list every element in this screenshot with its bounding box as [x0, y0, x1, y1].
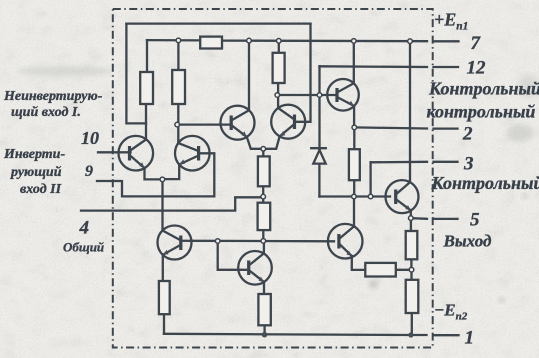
resistor R11 (T8 emitter) [159, 281, 170, 314]
svg-text:Неинвертирую-: Неинвертирую- [3, 89, 103, 104]
svg-text:3: 3 [463, 154, 474, 175]
node on rail at T6 collector [352, 39, 357, 44]
smudge: right margin blotches [507, 124, 533, 142]
wire: transistor T10 emitter to resistor R12 [263, 282, 265, 294]
transistor T10 (bottom center) [238, 251, 272, 285]
wire: transistor T9 emitter to resistor R9 [352, 256, 366, 270]
wire: transistor T7 collector from rail node down [409, 41, 411, 182]
wire: node to transistor T6 base [277, 94, 336, 96]
wire: rail corner down to resistor R1 top [146, 40, 148, 72]
smudge: bleed-through band top left [17, 66, 113, 76]
svg-text:контрольный: контрольный [427, 102, 536, 122]
wire: main +supply rail y=40, right part to pin 7 [222, 39, 459, 42]
node at R3 bottom / T4 collector [275, 93, 280, 98]
svg-text:щий вход I.: щий вход I. [11, 105, 81, 120]
node at diode riser on T6 base wire [317, 93, 322, 98]
node at R8/R9/R10 junction [409, 267, 414, 272]
wire: resistor R11 bottom to bottom rail corner [163, 314, 165, 334]
resistor R7 (second stage tail, lower) [258, 203, 271, 230]
wire: pin 5 output lead [411, 217, 458, 220]
wire: diode anode lead down to node wire [318, 164, 320, 197]
svg-text:Инверти-: Инверти- [3, 147, 65, 162]
wire: transistor T4 emitter to second stage tail node [263, 136, 279, 148]
resistor R2 [172, 70, 185, 104]
wire: leads of resistor R6 [262, 149, 264, 203]
wire: resistor R9 to node [396, 269, 412, 271]
wire: riser A from top rail down to T4 base [297, 24, 311, 122]
transistor T3 (second stage left) [221, 106, 255, 140]
wire: transistor T3 emitter to second stage tail node [247, 137, 263, 149]
resistor R4 (horizontal, top rail) [200, 37, 222, 49]
wire: pin 3 lead [371, 161, 458, 164]
wire: transistor T8 emitter to resistor R11 [162, 255, 164, 281]
wire: pin 2 lead from T6 emitter node [354, 127, 457, 128]
wire: main +supply rail y=40 (pin 7 rail), left part [147, 39, 200, 42]
node at R7 bottom on base bus [261, 239, 266, 244]
wire: R3 bottom through node to transistor T4 collector [277, 83, 279, 108]
wire: transistor T10 collector to bus node [263, 241, 265, 253]
svg-text:Выход: Выход [443, 232, 492, 251]
resistor R6 (second stage tail, upper) [258, 156, 270, 186]
wire: R2 bottom through node to transistor T2 collector [177, 104, 179, 143]
transistor T1 (input pair left) [119, 136, 154, 171]
wire: transistor T1 emitter to tail node [145, 168, 163, 179]
wire: tap from bus down to transistor T10 base [218, 241, 246, 270]
wire: transistor T3 collector to rail [248, 41, 250, 111]
wire: bottom rail to pin 1 [164, 334, 459, 335]
node on rail at pin 7 / T7 collector [408, 39, 413, 44]
wire: pin 4 common lead with jog to node [81, 197, 263, 210]
wire: tail node down to transistor T8 collector [161, 179, 163, 230]
node at output / T7 emitter [409, 216, 414, 221]
svg-text:2: 2 [462, 124, 473, 145]
node at T2 collector / T3 base junction [175, 122, 180, 127]
node at T6 emitter / pin 2 [352, 125, 357, 130]
diode D1 [311, 148, 326, 163]
resistor R10 (output emitter, lower) [406, 280, 419, 313]
transistor T7 (output transistor) [386, 180, 419, 213]
wire: resistor R3 tap from rail node [278, 41, 280, 53]
wire: leads of resistor R8 [410, 218, 413, 270]
svg-text:Общий: Общий [63, 240, 104, 255]
wire: node bus y=196 from diode to T7 base [319, 195, 390, 197]
wire: leads of resistor R5 (T6 emitter chain) [353, 127, 355, 196]
node on rail at R3 tap [277, 39, 282, 44]
svg-text:вход II: вход II [20, 182, 62, 197]
resistor R8 (output emitter, upper) [406, 231, 418, 259]
node on rail at R2 tap [176, 38, 181, 43]
resistor R9 (horizontal, T9 emitter) [365, 263, 396, 277]
resistor R3 [273, 53, 285, 83]
wire: base bus y=241 from T8 base to T9 base [192, 240, 335, 243]
wire: transistor T9 collector up to node bus [353, 197, 355, 227]
resistor R12 (T10 emitter) [258, 294, 270, 325]
wire: pin 12 lead from corner B [320, 65, 459, 68]
resistor R1 [140, 72, 153, 104]
IC dash-dot boundary frame [113, 9, 433, 348]
wire: transistor T6 emitter down to node [353, 106, 355, 127]
wire: transistor T6 collector to rail node [353, 41, 355, 83]
wire: R1 bottom to transistor T1 collector [145, 104, 147, 140]
transistor T4 (second stage right, mirrored) [271, 105, 305, 139]
svg-text:12: 12 [467, 58, 487, 79]
svg-text:4: 4 [79, 218, 90, 239]
node at T10 base tap [215, 239, 220, 244]
svg-text:10: 10 [81, 128, 99, 148]
wire: node to transistor T3 base [177, 123, 231, 125]
transistor T8 (current source, mirrored) [158, 226, 192, 260]
resistor R5 (T6 emitter) [349, 149, 360, 180]
svg-text:1: 1 [465, 328, 475, 349]
junction dot at bottom rail pin 1 [408, 332, 413, 337]
node on rail at T3 collector [247, 38, 252, 43]
transistor T9 (level shifter, bottom right) [328, 224, 363, 259]
wire: riser B from pin 12 corner down to diode cathode [318, 66, 320, 148]
wire: transistor T7 emitter to output node [410, 210, 412, 218]
wire: top internal rail from left rail corner to node A riser [126, 22, 310, 24]
transistor T2 (input pair right, mirrored) [175, 136, 210, 171]
wire: transistor T2 emitter to tail node [162, 165, 179, 180]
wire: riser from node bus to pin 3 lead [369, 162, 371, 196]
svg-text:9: 9 [85, 163, 93, 180]
wire: resistor R2 tap from rail node [177, 40, 179, 70]
node at pin 4 junction between R6 and R7 [261, 194, 266, 199]
wire: leads of resistor R10 [410, 270, 413, 335]
svg-text:Контрольный: Контрольный [428, 79, 539, 99]
transistor T6 (emitter follower, top right) [327, 79, 359, 111]
svg-text:7: 7 [471, 33, 482, 54]
node at input pair tail [160, 177, 165, 182]
wire: resistor R7 bottom to bus node [262, 230, 264, 241]
wire: pin 10 non-inverting input lead to T1 base [98, 151, 131, 153]
svg-text:5: 5 [470, 210, 480, 231]
node at R5 bottom / T9 collector [352, 194, 357, 199]
svg-text:рующий: рующий [10, 165, 62, 180]
wire: left rail drop with stub to T1 collector [126, 24, 146, 124]
wire: resistor R12 bottom to bottom rail [263, 325, 265, 334]
wire: pin 9 inverting input lead with jog to T2 base [97, 153, 214, 196]
node at second stage tail [261, 147, 266, 152]
junction dot at R12 bottom on rail [262, 332, 268, 338]
node at pin 3 riser [368, 194, 373, 199]
svg-text:Контрольный: Контрольный [431, 173, 539, 193]
